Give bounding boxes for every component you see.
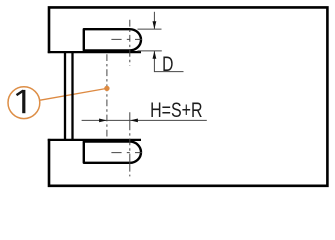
web wall left: [64, 51, 66, 141]
balloon leader: [40, 88, 107, 100]
bottom slot: [84, 142, 141, 163]
centerline top arc vertical: [129, 20, 131, 66]
centerline bottom arc horizontal: [111, 152, 143, 154]
balloon text 1: [17, 90, 24, 113]
web wall right: [71, 51, 73, 141]
workpiece outline: [49, 7, 327, 185]
centerline top arc horizontal: [111, 38, 143, 40]
inner edge bottom flange: [48, 139, 141, 141]
centerline slit axis: [106, 54, 108, 140]
dim H arrow right: [99, 119, 107, 123]
top slot: [84, 29, 141, 50]
dim D arrow up: [153, 51, 157, 59]
balloon leader dot: [104, 86, 109, 91]
dim D arrow down: [153, 21, 157, 29]
dim D line upper segment: [153, 12, 155, 29]
svg-text:H=S+R: H=S+R: [150, 99, 202, 122]
dim D extension line top: [138, 28, 162, 30]
balloon circle 1: [8, 87, 40, 119]
centerline bottom arc vertical / H extension: [129, 112, 131, 176]
dim H line: [82, 119, 207, 121]
dim D extension line bottom: [138, 50, 162, 52]
dim H arrow left: [130, 119, 138, 123]
dim D line lower segment with leader: [154, 51, 183, 72]
svg-text:D: D: [162, 53, 173, 76]
inner edge top flange: [48, 51, 141, 53]
